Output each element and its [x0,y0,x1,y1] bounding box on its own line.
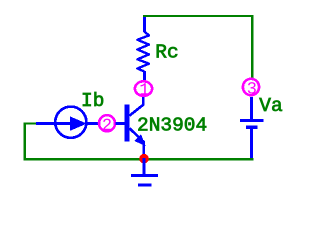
resistor top lead [143,17,146,32]
resistor zigzag [137,32,149,72]
emitter lead [130,128,144,158]
Va bottom lead [250,128,253,159]
current source Ib [36,107,99,138]
node 3 [243,79,259,95]
ground stem [143,158,146,175]
current source left lead [36,122,55,125]
Va top lead [250,97,253,120]
node 2 [99,115,115,131]
svg-text:3: 3 [247,80,257,99]
base lead [115,122,126,125]
junction dot [139,154,149,164]
svg-text:2: 2 [102,117,112,136]
collector lead [130,97,144,116]
ground bar short [138,184,152,187]
emitter arrowhead [136,136,143,144]
transistor Q1 2N3904 [115,97,143,158]
wire right vertical (top wire down to node 3) [251,15,253,79]
current source arrow [71,118,85,130]
svg-text:Rc: Rc [155,42,178,64]
current source inner line [55,122,72,125]
ground [131,158,158,185]
current source right lead [87,122,99,125]
wire bottom horizontal [24,158,254,160]
resistor Rc [137,17,149,80]
svg-text:2N3904: 2N3904 [137,115,207,137]
svg-text:Va: Va [259,95,283,117]
resistor bottom lead [143,71,146,80]
wire left vertical [24,123,26,161]
Va minus plate [246,125,258,128]
voltage source Va (battery) [240,97,264,158]
node 1 [135,81,152,96]
ground bar long [131,174,158,177]
svg-text:Ib: Ib [81,90,104,112]
wire top horizontal [143,15,253,17]
wire left horizontal stub to current source [24,122,38,124]
base bar [125,105,130,142]
current source circle [55,107,86,138]
Va plus plate [240,119,264,122]
